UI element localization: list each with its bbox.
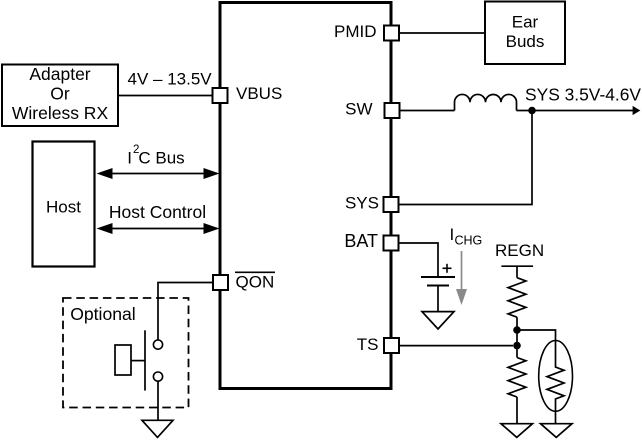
svg-text:QON: QON: [236, 272, 275, 291]
wire QON to button: [158, 283, 212, 340]
pin SW: [345, 99, 399, 118]
box Host: [33, 142, 95, 267]
wire TS pin to node: [400, 345, 513, 347]
svg-text:REGN: REGN: [495, 241, 544, 260]
I2C Bus arrow: [97, 168, 220, 179]
wire SYS rail: [399, 111, 532, 205]
svg-text:Ear: Ear: [512, 12, 539, 31]
IC U1 charger body: [220, 3, 391, 389]
REGN rail bar: [501, 266, 533, 278]
pin QON: [213, 272, 275, 291]
wire adapter to VBUS: [118, 95, 212, 97]
svg-text:SYS 3.5V-4.6V: SYS 3.5V-4.6V: [525, 84, 641, 104]
label ICHG: [450, 225, 483, 248]
arrow ICHG gray: [456, 251, 467, 305]
wire R1 to TS node: [516, 317, 518, 357]
thermistor RT: [539, 341, 573, 424]
inductor L1: [455, 94, 517, 110]
node SYS junction dot: [528, 107, 536, 115]
svg-text:Optional: Optional: [70, 304, 136, 324]
ground under button: [142, 420, 173, 437]
svg-text:Wireless RX: Wireless RX: [12, 103, 109, 123]
box Adapter Or Wireless RX: [2, 64, 118, 126]
pin BAT: [344, 231, 398, 251]
pin SYS: [345, 194, 399, 213]
Host Control arrow: [97, 223, 220, 234]
wire node to thermistor: [517, 330, 556, 341]
optional dashed box: [63, 298, 189, 408]
wire inductor to SYS output arrow: [517, 110, 634, 112]
wire button to ground: [157, 381, 159, 420]
svg-text:Or: Or: [50, 84, 70, 104]
svg-text:CHG: CHG: [455, 234, 483, 248]
resistor R2 TS lower: [508, 358, 526, 398]
node dot TS: [513, 342, 521, 350]
pin PMID: [334, 22, 399, 41]
arrow SYS output: [633, 106, 641, 115]
pin TS: [357, 335, 399, 354]
ground under thermistor: [541, 424, 573, 438]
ground under capacitor: [422, 312, 454, 329]
svg-text:VBUS: VBUS: [236, 84, 282, 103]
pushbutton S1: [115, 330, 163, 390]
resistor R1 REGN pull-up: [508, 278, 526, 318]
pin VBUS: [213, 84, 283, 103]
svg-text:C Bus: C Bus: [138, 148, 184, 167]
svg-text:Host Control: Host Control: [109, 202, 206, 222]
svg-text:Adapter: Adapter: [29, 64, 90, 84]
wire SW to inductor: [401, 110, 455, 112]
capacitor C1 battery: [421, 264, 455, 312]
label I2C Bus: [127, 144, 184, 168]
svg-text:Host: Host: [46, 198, 81, 217]
wire R2 to ground: [516, 397, 518, 424]
svg-text:SYS: SYS: [345, 194, 379, 213]
svg-text:4V – 13.5V: 4V – 13.5V: [128, 69, 213, 88]
svg-text:SW: SW: [345, 99, 372, 118]
svg-text:BAT: BAT: [344, 231, 378, 251]
svg-text:PMID: PMID: [334, 22, 377, 41]
node dot R1-thermistor: [513, 326, 521, 334]
ground under R2: [501, 424, 533, 438]
wire PMID to Ear Buds: [400, 32, 485, 34]
svg-text:I: I: [127, 148, 132, 167]
wire BAT to capacitor: [399, 243, 438, 276]
svg-text:Buds: Buds: [506, 32, 545, 51]
svg-text:TS: TS: [357, 335, 379, 354]
box Ear Buds: [485, 2, 565, 65]
